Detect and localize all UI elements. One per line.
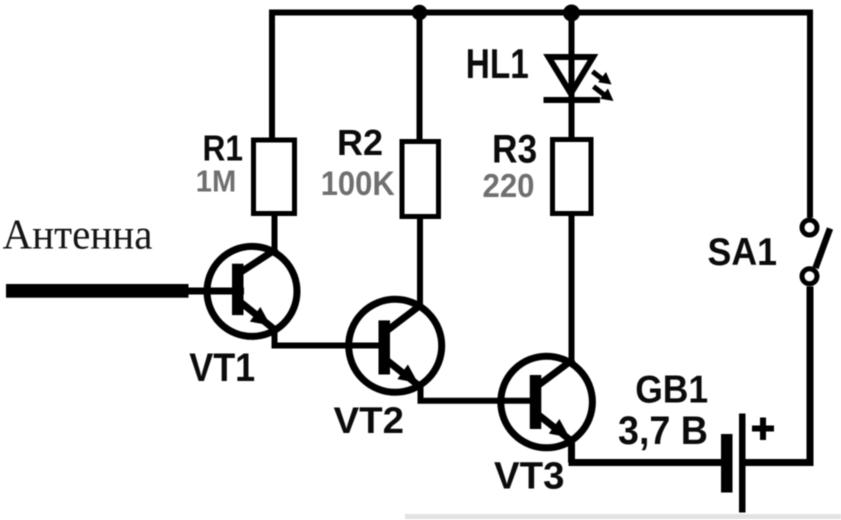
svg-text:VT2: VT2 [334,400,405,441]
svg-text:HL1: HL1 [466,40,529,87]
svg-text:VT3: VT3 [494,456,565,498]
svg-text:R3: R3 [492,128,537,172]
svg-text:GB1: GB1 [635,369,708,412]
svg-text:VT1: VT1 [189,346,255,390]
svg-text:220: 220 [483,167,535,204]
svg-text:3,7 В: 3,7 В [618,409,708,453]
svg-text:1M: 1M [196,163,237,198]
svg-text:Антенна: Антенна [3,213,153,259]
svg-text:R2: R2 [337,122,383,163]
svg-text:SA1: SA1 [708,231,778,274]
svg-text:100K: 100K [321,165,395,203]
